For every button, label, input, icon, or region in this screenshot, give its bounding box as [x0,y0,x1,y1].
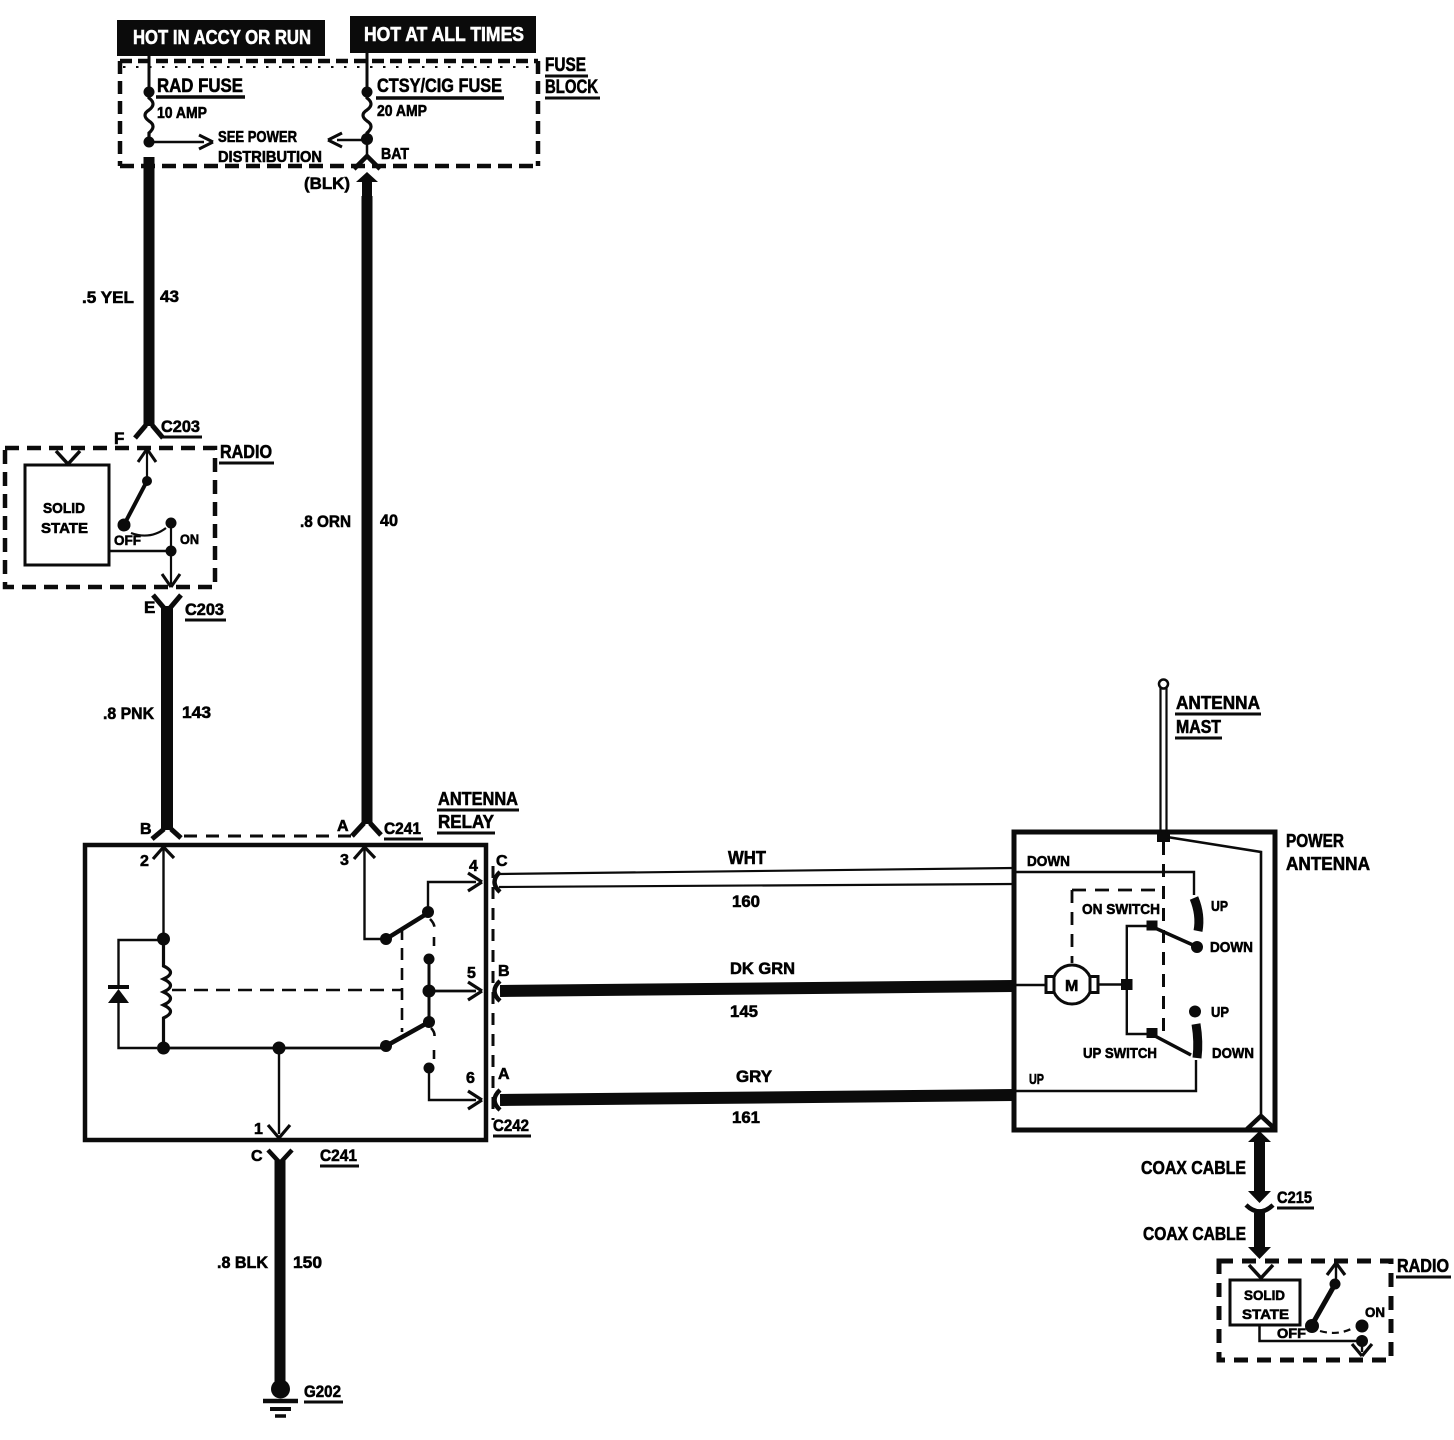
connector C215 female cup [1246,1205,1273,1212]
label G202 [304,1382,343,1402]
fuse block boundary (dashed) [120,61,538,166]
svg-text:GRY: GRY [736,1067,773,1086]
svg-text:UP: UP [1211,1004,1229,1021]
wire junction to UP switch pivot [1127,985,1147,1034]
svg-text:2: 2 [140,853,149,870]
radio switch OFF contact [118,519,131,532]
svg-text:SOLID: SOLID [43,500,85,517]
wire DK GRN 145 (thick) [500,986,1014,991]
svg-text:3: 3 [340,852,349,869]
svg-text:STATE: STATE [41,520,88,537]
svg-text:43: 43 [160,287,179,306]
wire contact chain [428,959,431,991]
svg-text:F: F [114,429,124,448]
radio solid state module [25,465,109,565]
antenna mast [1159,680,1168,834]
label CTSY/CIG FUSE [376,76,504,98]
relay upper armature pivot node [380,933,392,945]
radio2 switch throw arc [1320,1328,1353,1333]
svg-text:BLOCK: BLOCK [545,77,598,98]
wire into radio pin F with up arrow [138,449,156,478]
svg-text:40: 40 [380,511,398,530]
svg-text:10 AMP: 10 AMP [157,105,207,122]
svg-text:B: B [140,821,152,838]
radio switch arm (to OFF) [126,481,147,521]
wire .8 BLK 150 (thick vertical) [275,1160,286,1383]
svg-text:5: 5 [467,965,476,982]
connector C242 dashed boundary line [492,866,495,1120]
label C241 (bottom) [320,1146,359,1166]
svg-text:RADIO: RADIO [1397,1256,1449,1276]
label RADIO (upper) [219,442,274,463]
svg-text:OFF: OFF [1277,1325,1306,1341]
wire contact to pin 5 [429,990,476,993]
wire: HOT IN ACCY tag to RAD FUSE [148,56,151,89]
wire radio2 solid state to junction [1260,1325,1363,1341]
relay lower armature pivot node [380,1040,392,1052]
svg-text:G202: G202 [304,1382,341,1401]
wire junction to pin E with down arrow [162,551,180,587]
relay contact node [424,954,435,965]
coax cable lower segment (thick with down arrow) [1248,1213,1271,1259]
svg-text:RADIO: RADIO [220,442,272,462]
UP switch blade (thrown to DOWN) [1196,1024,1198,1058]
ground G202 [263,1380,298,1417]
fuse RAD FUSE 10 AMP [145,93,153,139]
radio switch throw arc [131,528,166,536]
relay lower contact node [423,1016,435,1028]
fuse CTSY/CIG FUSE 20 AMP [363,93,371,136]
label ANTENNA RELAY [437,789,519,833]
label RAD FUSE [156,76,245,97]
svg-text:ANTENNA: ANTENNA [438,789,518,809]
relay pin 1 junction node [273,1042,286,1055]
motor M [1046,965,1098,1004]
wire DK GRN to motor [1014,984,1046,986]
radio (upper) boundary dashed box [5,448,215,587]
wire junction to ON switch pivot [1127,926,1147,984]
relay coil [164,939,171,1048]
wire GRY 161 (thick) [500,1095,1014,1100]
svg-text:20 AMP: 20 AMP [377,103,427,120]
wire .8 PNK 143 (thick vertical) [161,606,173,830]
connector C241 dashed boundary line [184,835,352,838]
svg-text:HOT IN ACCY OR RUN: HOT IN ACCY OR RUN [133,27,311,49]
connector C242 pin B female cup [495,981,501,1001]
label ANTENNA MAST [1175,693,1261,738]
power tag HOT IN ACCY OR RUN [117,20,325,56]
relay pin 6 arrow (male) [468,1091,482,1109]
label POWER ANTENNA [1286,831,1370,874]
svg-text:160: 160 [732,892,760,911]
relay upper armature arm [386,913,428,939]
svg-text:B: B [498,963,510,980]
relay armature linkage (dashed, from coil) [172,928,402,1032]
radio2 lower junction node [1356,1335,1368,1347]
wire: HOT AT ALL TIMES tag to CTSY/CIG fuse [366,53,369,89]
wire contact to pin 6 [429,1068,476,1100]
svg-text:161: 161 [732,1108,760,1127]
wire WHT 160 (double line) [499,868,1014,887]
svg-text:DOWN: DOWN [1212,1045,1254,1062]
junction node BAT [361,133,373,145]
radio2 ON contact [1356,1320,1369,1333]
svg-text:.8 BLK: .8 BLK [217,1253,269,1272]
svg-text:UP: UP [1029,1071,1044,1088]
wire motor to switch junction [1098,983,1122,985]
svg-text:COAX CABLE: COAX CABLE [1143,1224,1246,1244]
relay contact chain dashed [430,919,435,952]
radio switch ON contact [166,518,177,529]
relay internal bottom wire [164,1047,387,1050]
svg-text:150: 150 [293,1253,322,1272]
wire contact chain lower [428,991,431,1021]
power antenna box [1014,832,1275,1130]
wire .8 ORN 40 male arrow into BAT [356,172,378,199]
power tag HOT AT ALL TIMES [350,16,536,53]
svg-text:ON SWITCH: ON SWITCH [1082,901,1160,918]
UP switch UP contact node [1189,1006,1201,1018]
svg-text:UP SWITCH: UP SWITCH [1083,1045,1157,1062]
svg-text:C241: C241 [320,1146,357,1165]
svg-text:HOT AT ALL TIMES: HOT AT ALL TIMES [364,24,524,46]
svg-text:DOWN: DOWN [1210,939,1253,956]
svg-text:C241: C241 [384,819,421,838]
svg-text:FUSE: FUSE [545,55,586,76]
svg-text:C203: C203 [185,600,224,619]
relay coil top junction node [157,933,170,946]
wire: BAT node down to connector [366,139,369,155]
connector BAT female cup [354,156,380,169]
relay pin 3 wire with up arrow [354,847,381,939]
svg-text:145: 145 [730,1002,758,1021]
svg-text:E: E [144,598,155,617]
svg-text:POWER: POWER [1286,831,1344,851]
svg-text:DK GRN: DK GRN [730,959,795,978]
svg-text:DISTRIBUTION: DISTRIBUTION [218,149,322,166]
relay pin 1 wire with down arrow [268,1048,290,1138]
relay lower contact chain dashed [431,1028,435,1060]
radio2 output wire with down arrow [1352,1341,1372,1356]
svg-text:MAST: MAST [1176,717,1221,737]
svg-text:C242: C242 [493,1116,529,1135]
svg-text:CTSY/CIG FUSE: CTSY/CIG FUSE [377,76,502,97]
ON switch blade (thrown to UP) [1194,898,1199,931]
svg-text:BAT: BAT [381,146,409,163]
relay pin 5 arrow (male) [468,982,482,1000]
radio2 antenna symbol [1249,1265,1273,1280]
svg-text:UP: UP [1211,898,1228,915]
connector C242 pin A female cup [495,1090,501,1110]
wire to diode (top) [119,940,164,985]
junction node below RAD FUSE [144,137,155,148]
svg-text:4: 4 [469,858,478,875]
svg-text:A: A [337,818,349,835]
wire UP switch to GRY [1014,1060,1196,1091]
svg-text:1: 1 [254,1121,263,1138]
junction node above RAD FUSE [144,87,155,98]
radio on/off switch pivot node [142,476,152,486]
wire solid state to switch junction [109,550,171,553]
label RADIO (lower) [1396,1256,1451,1277]
svg-text:6: 6 [466,1070,475,1087]
label C215 [1277,1188,1314,1208]
radio2 switch blade to OFF [1313,1286,1334,1323]
connector C242 pin C female cup [495,872,501,892]
svg-text:ON: ON [1365,1304,1385,1320]
wire DOWN from WHT to ON switch [1014,872,1194,895]
svg-text:DOWN: DOWN [1027,853,1070,870]
svg-text:SEE POWER: SEE POWER [218,129,297,146]
svg-text:(BLK): (BLK) [304,174,350,193]
radio2 solid state module [1230,1280,1300,1325]
connector C241 pin B (crow-foot) [152,829,181,839]
ON switch arm to DOWN contact [1155,928,1193,945]
label FUSE BLOCK [545,55,600,98]
svg-text:C215: C215 [1277,1188,1312,1207]
ON switch pivot node [1147,921,1158,931]
svg-text:RAD FUSE: RAD FUSE [157,76,243,97]
connector C241 pin A (crow-foot) [352,823,381,836]
antenna mast junction node [1157,832,1170,842]
label SEE POWER DISTRIBUTION [218,129,322,166]
radio2 switch input wire with up arrow [1327,1263,1345,1281]
connector C203 pin E (flare up) [153,595,181,608]
antenna relay box [85,845,486,1140]
label C203 (lower) [185,600,226,620]
wire from diode (bottom) [119,1003,158,1048]
svg-text:STATE: STATE [1242,1306,1289,1322]
wire arrow: RAD FUSE to SEE POWER DISTRIBUTION [149,135,213,149]
radio (lower) boundary dashed box [1219,1261,1391,1360]
radio2 OFF contact [1305,1319,1319,1333]
radio2 switch pivot node [1330,1279,1341,1290]
wire contact to pin 4 [428,882,476,912]
svg-text:.5 YEL: .5 YEL [82,288,134,307]
UP switch pivot node [1147,1028,1158,1038]
svg-text:.8 ORN: .8 ORN [300,512,351,531]
mast linkage (dashed vertical in box) [1162,842,1165,1038]
motor junction node [1121,979,1133,990]
switch assembly dashed box [1072,890,1160,963]
junction node above CTSY/CIG fuse [362,87,373,98]
connector C241 pin C female cup [268,1150,292,1163]
svg-text:M: M [1065,978,1078,995]
wire arrow: BAT node to power distribution (left) [328,133,367,147]
wire mast to right side [1167,837,1261,1114]
UP switch arm to DOWN contact [1155,1036,1191,1055]
label C203 (top) [161,417,202,437]
wire .5 YEL 43 (thick vertical) [144,157,155,426]
junction node in radio [166,546,177,557]
relay upper contact node (pin 4 side) [422,906,434,918]
svg-text:C: C [251,1148,263,1165]
svg-text:ANTENNA: ANTENNA [1286,854,1370,874]
svg-text:SOLID: SOLID [1244,1287,1285,1303]
diode CR1 [108,987,129,1003]
svg-text:C203: C203 [161,417,200,436]
connector coax female cup (bottom of power antenna) [1247,1116,1275,1129]
relay coil bottom junction node [157,1042,170,1055]
svg-text:COAX CABLE: COAX CABLE [1141,1158,1246,1178]
relay pin 4 arrow (male) [468,873,482,891]
wire .8 ORN 40 (thick vertical) [362,196,373,824]
relay center contact node (pin 5) [423,985,436,998]
coax cable upper segment (thick with arrows both ends) [1248,1131,1271,1203]
svg-text:ANTENNA: ANTENNA [1176,693,1260,713]
svg-text:143: 143 [182,703,211,722]
svg-text:.8 PNK: .8 PNK [103,704,155,723]
svg-text:A: A [498,1066,510,1083]
label C241 (top) [384,819,423,839]
connector C203 pin F (crow-foot) [135,425,163,438]
relay lower armature arm [386,1022,429,1046]
svg-text:C: C [496,853,508,870]
wire ON contact to junction [170,523,172,550]
svg-text:WHT: WHT [728,848,766,868]
label C242 [493,1116,531,1136]
antenna symbol on radio [56,451,80,465]
ON switch DOWN contact node [1191,941,1203,953]
relay pin 6 contact node [424,1063,435,1074]
svg-text:RELAY: RELAY [438,812,494,832]
relay pin 2 wire with up arrow [153,847,174,936]
svg-text:ON: ON [180,531,199,547]
